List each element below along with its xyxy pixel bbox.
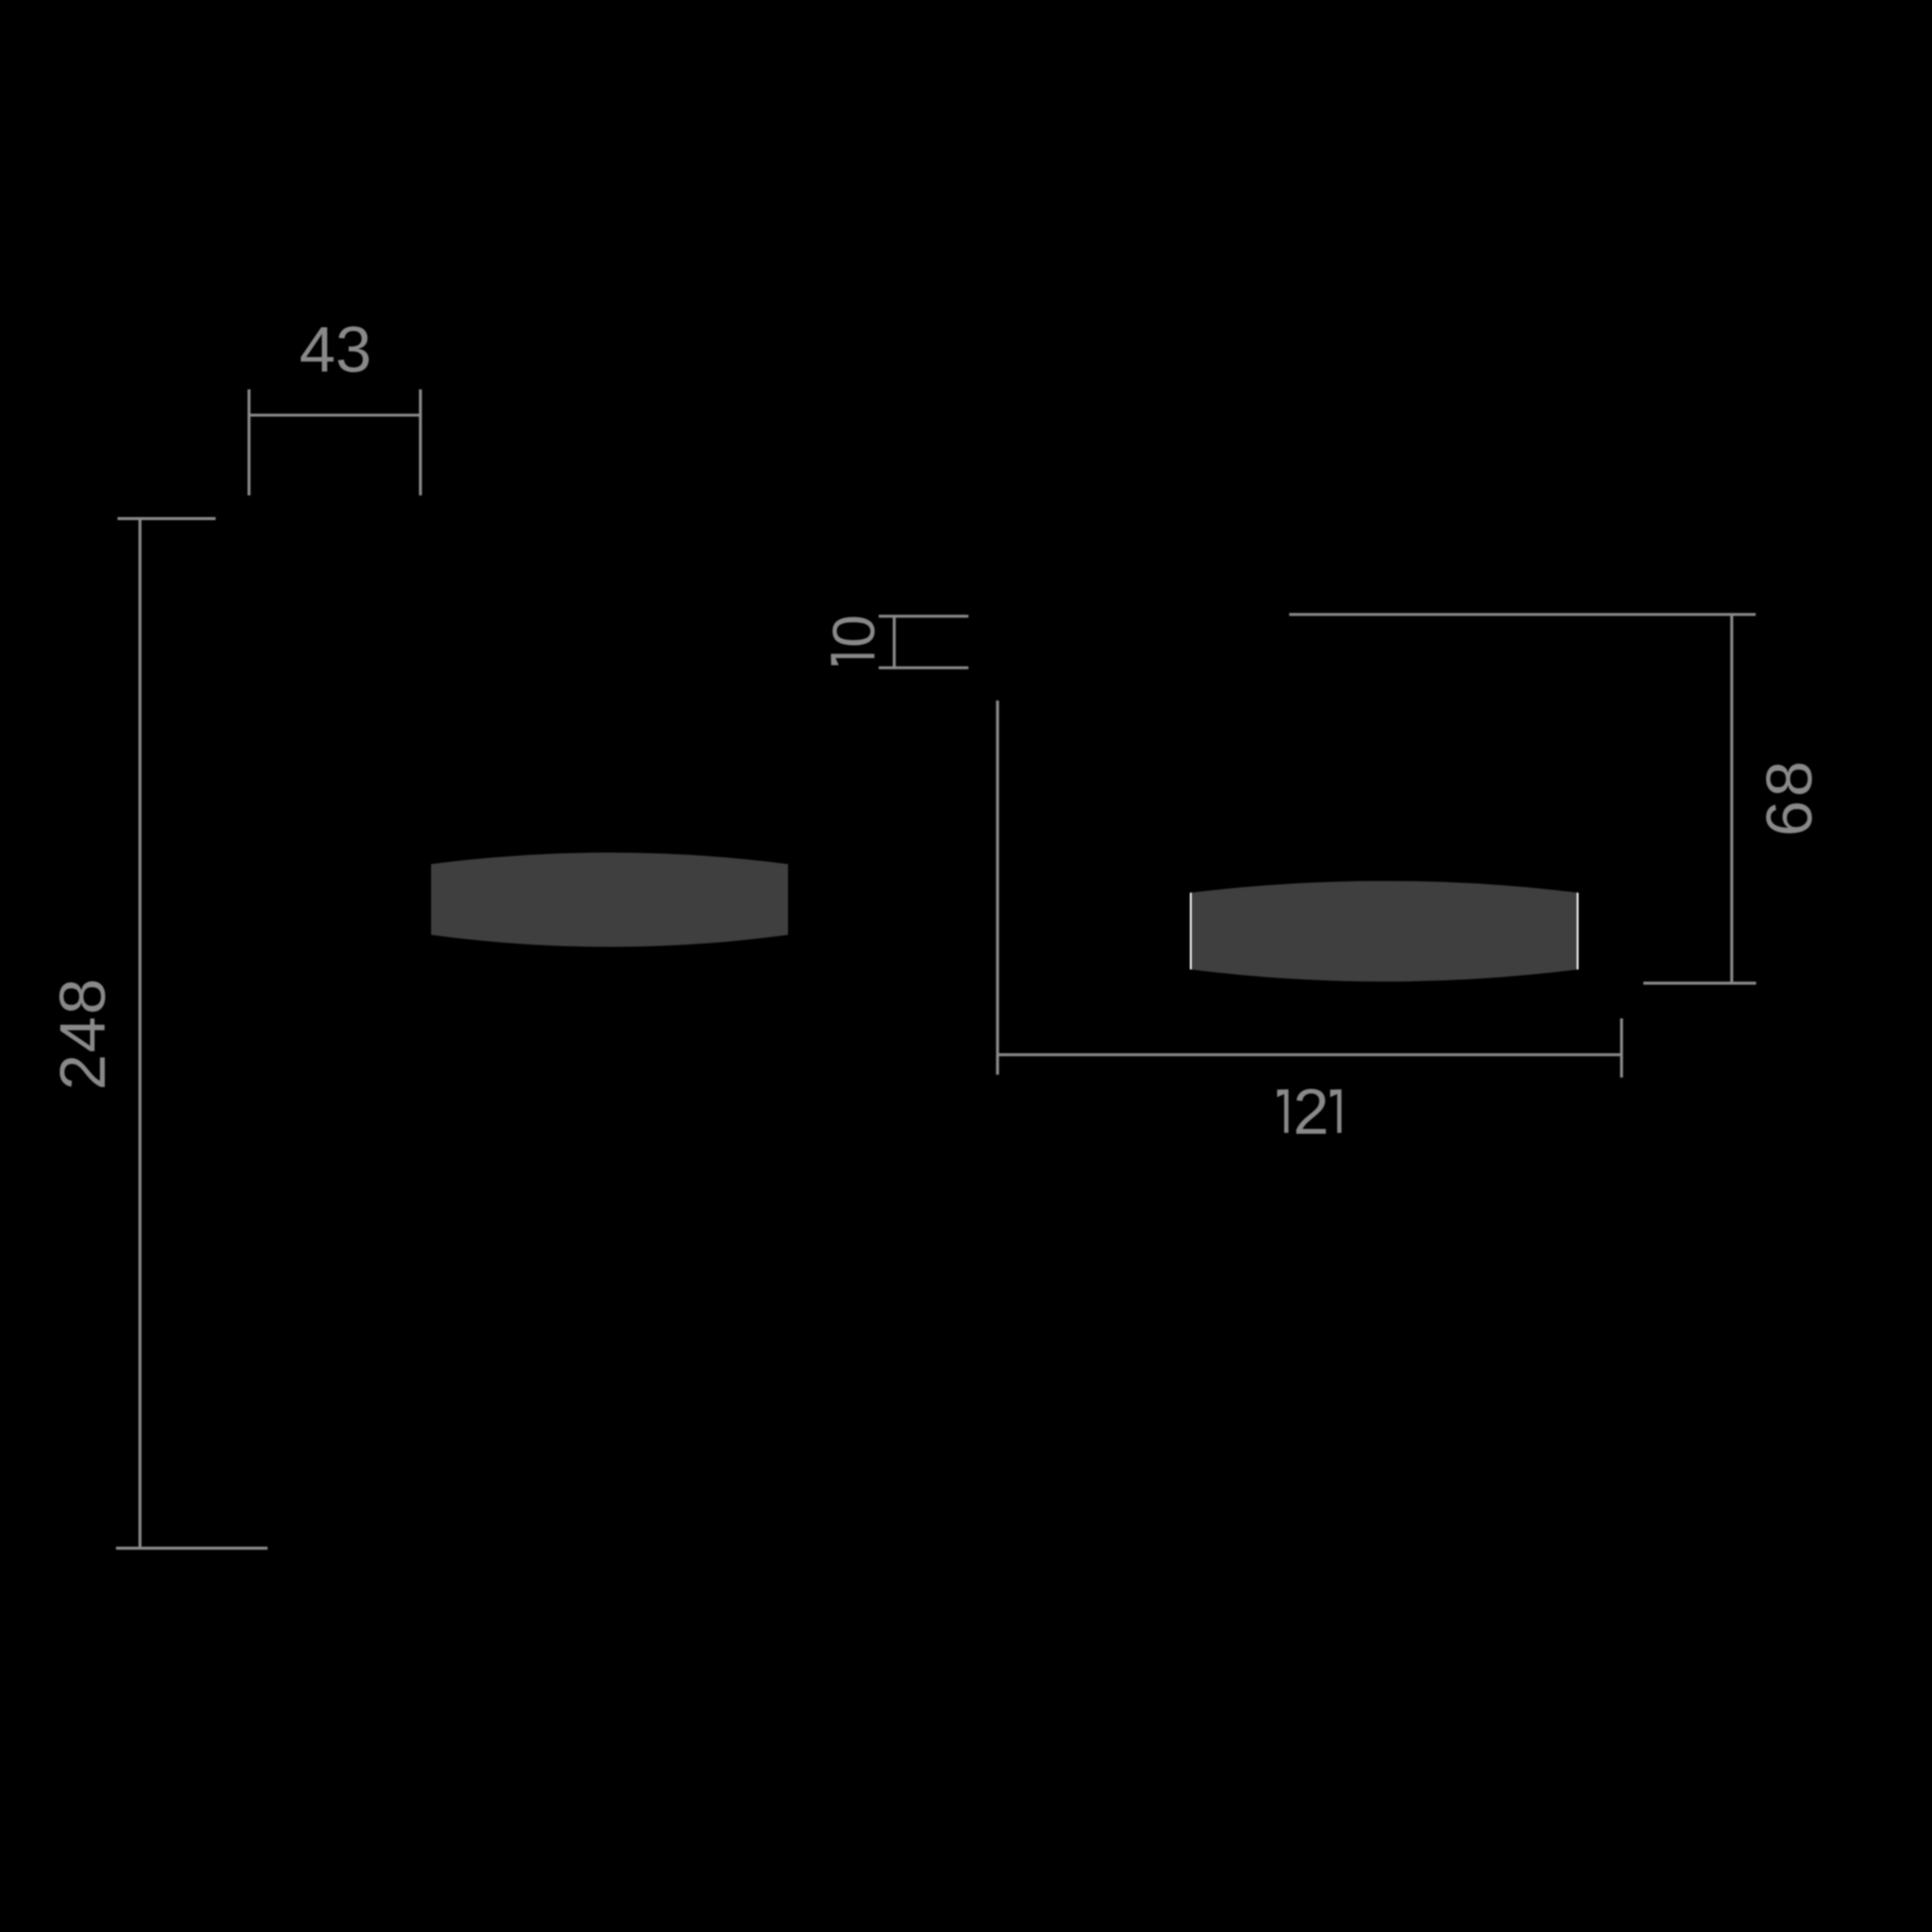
svg-text:4: 4 [299,313,336,386]
svg-text:2: 2 [46,1054,119,1090]
svg-text:6: 6 [1753,800,1825,836]
svg-text:3: 3 [336,313,372,386]
svg-text:8: 8 [46,978,119,1014]
svg-text:0: 0 [820,615,887,648]
svg-text:4: 4 [46,1017,119,1053]
svg-text:8: 8 [1753,761,1825,797]
svg-text:2: 2 [1293,1075,1329,1148]
